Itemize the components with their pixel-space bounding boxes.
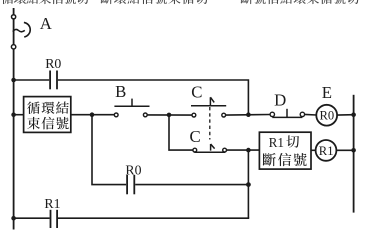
wire coil R0 to right rail xyxy=(337,114,354,116)
wire box1 to contact B xyxy=(71,114,115,116)
svg-text:C: C xyxy=(191,83,202,102)
pushbutton contact B xyxy=(114,99,149,117)
wire rail to box1 xyxy=(14,114,24,116)
node: junction row3 x248 xyxy=(246,148,251,153)
node: row5 junction on left rail xyxy=(11,216,16,221)
wire branch from B-junction down to row3 xyxy=(169,115,193,150)
wire row1 right + drop to row2 xyxy=(58,80,249,116)
wire coil R1 to right rail xyxy=(336,149,353,151)
wire row5 left xyxy=(14,217,50,219)
node: junction row2 x248 xyxy=(246,112,251,117)
wire: left rail xyxy=(13,8,15,230)
svg-text:A: A xyxy=(40,14,52,33)
wire box2 to coil R1 xyxy=(311,149,316,151)
svg-text:R0: R0 xyxy=(45,56,61,71)
wire vertical x248 rows3-5 xyxy=(247,149,249,218)
timed contact C (lower, NC) xyxy=(193,144,227,152)
relay coil R1 xyxy=(316,140,337,161)
arc of source A xyxy=(24,22,30,37)
svg-text:B: B xyxy=(115,82,126,101)
wire: right rail xyxy=(353,95,355,213)
AC tilde of source A xyxy=(13,29,25,31)
node: row1 junction on left rail xyxy=(11,78,16,83)
wire row4 right xyxy=(135,184,248,186)
node: right rail junction row3 xyxy=(351,148,356,153)
box: cycle-end-signal label box xyxy=(24,97,71,133)
dashed mechanical link C-C xyxy=(209,107,211,140)
wire branch x92 down to row4 xyxy=(92,115,126,185)
contact R0 (row 4) xyxy=(127,175,134,194)
power source terminal A (lower circle) xyxy=(11,45,15,49)
svg-text:R1: R1 xyxy=(319,144,334,158)
wire C lower to box2 xyxy=(227,149,261,151)
relay coil E (R0) xyxy=(316,105,337,126)
node: junction after B (branch to row3) xyxy=(167,113,172,118)
svg-text:R1: R1 xyxy=(44,196,60,211)
svg-text:R0: R0 xyxy=(320,109,335,123)
wire D to coil R0 xyxy=(305,113,317,116)
svg-text:D: D xyxy=(274,90,286,109)
power source terminal A (upper circle) xyxy=(12,15,16,19)
node: right rail junction row2 xyxy=(351,112,356,117)
box: R1 cut-off-signal label box xyxy=(259,132,311,169)
svg-text:R1: R1 xyxy=(269,135,284,150)
node: row2 junction on left rail xyxy=(11,112,16,117)
cut-off text line (previous paragraph, clipped) xyxy=(1,0,359,4)
svg-text:C: C xyxy=(190,127,201,146)
wire row1 left xyxy=(14,79,50,81)
wire C to D xyxy=(226,114,271,117)
contact R1 (row 5) xyxy=(51,210,58,228)
contact D (NC with actuator) xyxy=(270,109,305,118)
svg-text:E: E xyxy=(322,83,332,102)
node: junction row4 x248 xyxy=(246,182,251,187)
wire B to C xyxy=(147,114,192,116)
wire row5 right xyxy=(58,217,249,219)
timed contact C (upper, NO) xyxy=(191,97,226,117)
svg-text:R0: R0 xyxy=(125,162,141,177)
contact R0 (row 1, NO contact) xyxy=(50,71,57,90)
node: branch junction to row4 xyxy=(90,112,95,117)
